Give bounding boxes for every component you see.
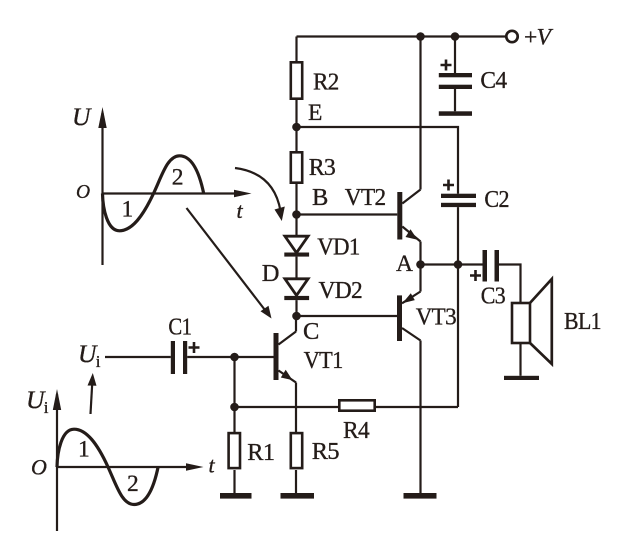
- speaker BL1: [512, 279, 601, 376]
- node B: [292, 210, 301, 219]
- svg-text:C1: C1: [168, 314, 191, 341]
- resistor R3: [295, 127, 297, 215]
- svg-text:Ui: Ui: [78, 339, 101, 371]
- wire C3 to speaker: [499, 265, 521, 304]
- node R1/R4: [230, 403, 239, 412]
- svg-text:O: O: [31, 455, 47, 480]
- node A: [416, 260, 425, 269]
- up arrow to Ui: [91, 382, 93, 414]
- sine wave Ui: [57, 429, 158, 504]
- ground R5: [281, 493, 315, 499]
- svg-text:A: A: [396, 251, 413, 277]
- svg-text:R3: R3: [309, 154, 336, 181]
- diode VD2: [285, 279, 308, 296]
- svg-text:R5: R5: [312, 438, 339, 465]
- wire top rail: [297, 35, 507, 37]
- svg-text:D: D: [262, 260, 279, 287]
- svg-text:1: 1: [78, 437, 89, 463]
- svg-text:B: B: [312, 184, 328, 211]
- node junction A-C2: [454, 260, 463, 269]
- ground VT3: [404, 493, 437, 499]
- waveform Ui axes: [26, 385, 216, 531]
- straight arrow to C: [187, 208, 267, 312]
- svg-text:2: 2: [172, 165, 183, 191]
- svg-text:E: E: [308, 100, 322, 126]
- svg-text:VD2: VD2: [319, 277, 363, 304]
- sine wave U: [103, 156, 204, 231]
- svg-text:C3: C3: [481, 283, 506, 310]
- wire B to VT2 base: [297, 213, 398, 215]
- resistor R2: [295, 37, 297, 128]
- wire E to C2: [297, 127, 459, 194]
- svg-text:O: O: [76, 182, 90, 203]
- ground R1: [220, 493, 252, 499]
- svg-text:2: 2: [127, 471, 138, 497]
- svg-text:t: t: [237, 198, 244, 223]
- curved arrow to B: [235, 168, 281, 211]
- resistor R5: [295, 470, 297, 493]
- capacitor C1: [105, 314, 274, 375]
- svg-text:R1: R1: [247, 439, 274, 466]
- svg-text:R4: R4: [343, 417, 369, 444]
- svg-text:U: U: [72, 102, 92, 131]
- svg-text:BL1: BL1: [564, 308, 601, 335]
- resistor R4: [235, 406, 459, 408]
- svg-text:C4: C4: [480, 67, 506, 94]
- resistor R1: [233, 407, 235, 493]
- svg-text:+V: +V: [524, 25, 554, 51]
- wire A line: [421, 263, 483, 265]
- capacitor C3: [470, 250, 505, 310]
- transistor VT3: [397, 265, 456, 494]
- svg-text:C: C: [303, 318, 319, 345]
- svg-text:VT3: VT3: [416, 304, 457, 331]
- svg-text:C2: C2: [484, 186, 509, 213]
- svg-text:VT2: VT2: [345, 184, 386, 211]
- transistor VT1: [274, 316, 343, 432]
- node E: [292, 123, 301, 132]
- ground C4: [439, 111, 472, 116]
- svg-text:t: t: [209, 453, 216, 478]
- capacitor C4: [439, 32, 507, 111]
- svg-text:1: 1: [122, 196, 133, 222]
- node C: [292, 312, 301, 321]
- ground speaker: [504, 376, 539, 380]
- node VT2 collector on rail: [416, 32, 425, 41]
- svg-text:VD1: VD1: [317, 234, 360, 261]
- svg-text:VT1: VT1: [304, 347, 343, 374]
- node VT1 base: [230, 353, 239, 362]
- wire C to VT3 base: [297, 315, 398, 317]
- terminal +V: [506, 31, 517, 42]
- svg-text:R2: R2: [313, 69, 339, 96]
- transistor VT2: [345, 37, 421, 265]
- wire R4 feedback vertical: [457, 265, 459, 408]
- capacitor C2: [441, 180, 509, 265]
- wire base to R1/R4 node: [233, 357, 235, 407]
- waveform U axes: [72, 102, 252, 265]
- svg-text:Ui: Ui: [26, 385, 49, 417]
- diode VD1: [295, 215, 297, 237]
